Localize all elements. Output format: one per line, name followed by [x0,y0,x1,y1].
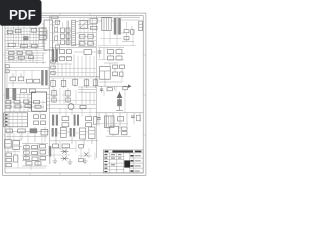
capacitor C31 [70,128,76,137]
capacitor C23 [93,117,97,125]
wire texture mid-right [98,48,125,82]
ground G2 [68,159,73,165]
diode D7 [41,129,48,135]
resistor R15 [26,51,32,54]
wire vertical divider left [49,16,51,164]
wire texture bottom-left [6,131,47,170]
resistor R52 [62,123,69,127]
capacitor C14 [73,78,78,87]
wire texture lower-right [98,86,128,124]
resistor R18 [10,77,16,81]
border zone ticks [3,13,146,175]
wire mid-left stubs [8,73,41,87]
resistor R47 [41,115,46,119]
resistor R13 [9,51,14,54]
resistor R57 [6,129,13,133]
resistor R71 [122,132,127,135]
resistor R24 [60,57,65,61]
inductor L1 [6,88,9,99]
PDF badge overlay [0,0,42,26]
resistor R70 [122,127,127,130]
capacitor C13 [61,78,66,88]
sheet inner border [5,16,143,173]
wire verticals under badge [8,27,43,51]
connector CN3 [4,113,28,127]
capacitor C25 [115,86,128,90]
wire horizontals top-left [6,28,48,51]
resistor R63 [62,144,70,148]
sheet outer border [3,13,146,175]
transistor Q1 [61,149,69,153]
wire horizontal right y113 [96,112,143,114]
capacitor C22 [74,115,79,126]
wire mid-top horizontals [52,22,96,47]
resistor R7 [91,26,97,29]
capacitor C27 [131,115,140,121]
resistor R17 [18,56,24,59]
resistor R20 [26,79,32,83]
diode D5 [128,84,131,88]
wire texture mid-left [6,50,44,79]
capacitor C20 [66,88,70,103]
wire texture lower-center [50,88,96,117]
optocoupler U3 [80,21,88,29]
capacitor C1 [23,36,28,40]
capacitor C16 [93,78,98,88]
resistor R66 [79,145,84,148]
resistor R36 [21,89,27,93]
capacitor C18 [120,72,123,76]
regulator U4 [100,67,111,80]
resistor R44 [25,105,31,108]
resistor R14 [17,51,22,54]
inductor L2 [12,88,16,100]
capacitor C9 [5,65,9,68]
wire texture bottom-mid [50,132,95,160]
wire vertical divider mid [96,16,98,158]
resistor R21 [34,79,40,83]
resistor R55 [107,88,112,91]
resistor R1 [7,30,12,33]
wire stub [49,157,51,165]
wire bottom-left rows [6,127,50,142]
wire texture mid-center [50,56,96,76]
switch SW1 block [22,143,48,166]
capacitor C21 [52,115,58,126]
title block right entries [135,155,141,171]
resistor R43 [15,105,21,108]
wire bottom-mid bus [50,137,98,146]
resistor R61 [6,164,12,167]
resistor R46 [34,115,39,119]
fuse F1 [51,16,58,19]
resistor R38 [6,100,11,103]
relay K1 [5,140,12,148]
resistor R72 [60,28,64,32]
resistor R53 [86,117,92,121]
resistor R54 [86,123,92,127]
varistor RV1 arrow [116,92,123,111]
transformer T2 [114,18,121,36]
resistor R49 [41,121,46,125]
resistor R51 [62,117,69,121]
capacitor C11 [52,49,58,62]
capacitor C29 [52,128,58,137]
connector CN5 [104,116,114,127]
resistor R59 [6,153,12,156]
resistor R41 [34,100,40,103]
diode D1 [31,44,37,47]
wire mid-left rows [6,53,47,64]
capacitor C24 [100,86,103,93]
capacitor C8 [28,56,33,59]
resistor R29 [108,50,114,54]
resistor R58 [18,129,26,133]
resistor R35 [113,72,118,75]
transformer T1 core [67,21,69,46]
wire mid rows [50,47,96,76]
capacitor C33 [89,127,95,139]
wire texture top-right [98,22,136,46]
bridge rectifier BD1 [39,28,46,40]
resistor R62 [53,144,59,148]
diode D2 [90,19,97,24]
relay K2 [13,141,20,150]
capacitor C30 [60,127,66,137]
resistor R32 [116,56,122,60]
resistor R40 [24,100,29,103]
resistor R6 [55,45,59,49]
resistor R12 [124,37,129,40]
wire horizontal x48-99 y77 [49,75,99,77]
wire texture top-left [6,28,46,49]
svg-text:PDF: PDF [9,8,36,23]
transformer T1 secondary winding [72,20,76,46]
wire texture top-mid [50,18,96,46]
switching IC U2 [42,20,56,50]
wire left rows y100-112 [6,93,47,112]
capacitor C19 [52,88,56,103]
resistor R60 [6,158,12,161]
diode D4 [84,50,92,55]
wire right-top [98,20,139,42]
capacitor C37 [66,40,70,44]
capacitor C6 [55,36,58,40]
resistor R31 [108,56,114,60]
resistor R74 [60,40,64,44]
resistor R10 [79,42,85,46]
inductor L3 [41,70,43,85]
diode D6 [30,128,38,133]
connector CN2 [139,21,143,31]
transistor Q2 [61,156,69,160]
resistor R4 [21,44,28,47]
resistor R22 [60,50,65,54]
title block left labels [104,154,107,172]
capacitor C15 [84,78,89,88]
ground G3 [83,158,88,164]
title block [103,150,143,173]
wire t1 links [58,22,79,45]
diode D3 [124,30,129,33]
inductor L4 [45,70,47,85]
resistor R2 [15,29,21,32]
resistor R73 [60,34,64,38]
title block header text [105,151,142,153]
capacitor C10 [5,70,9,73]
resistor R9 [88,35,94,39]
resistor R28 [51,71,55,74]
resistor R11 [88,42,94,46]
resistor R33 [113,65,118,68]
resistor R30 [116,50,122,54]
title block stamp [124,160,130,167]
IC U1 [29,92,50,111]
capacitor C7 [131,30,134,35]
IC U5 [106,126,131,136]
resistor R42 [6,105,11,108]
wire right-mid [98,48,125,66]
resistor R37 [29,89,35,93]
line filter LF1 [102,18,111,31]
capacitor C36 [66,34,70,38]
ground G1 [53,158,58,164]
resistor R3 [8,43,15,46]
resistor R5 [55,20,59,24]
resistor R16 [9,56,14,59]
wire top bus [6,16,140,18]
lamp M1 [68,104,74,110]
isolation boundary box [7,67,49,88]
resistor R19 [18,77,24,81]
capacitor C17 [98,48,102,58]
wire bundle right-of-center [78,87,96,104]
resistor R45 [35,105,41,108]
resistor R23 [66,50,71,54]
transistor Q3 [84,152,88,156]
resistor R8 [79,35,85,39]
resistor R26 [51,60,55,63]
capacitor C12 [51,78,56,88]
resistor R39 [14,100,20,103]
capacitor C38 [49,146,51,157]
resistor R25 [66,57,71,61]
title block mid entries [111,154,121,165]
capacitor C26 [97,118,101,120]
wire right column drops [99,113,140,128]
resistor R27 [51,66,55,69]
resistor R34 [120,65,125,68]
resistor R48 [34,121,39,125]
capacitor C35 [66,28,70,32]
resistor R56 [118,117,124,121]
resistor R68 [79,158,84,161]
capacitor C5 [55,28,58,32]
wire long horizontals y105-108 [50,105,96,108]
wire horizontal right y86 [98,85,131,87]
capacitor C2 [31,29,36,33]
resistor R50 [80,105,86,108]
capacitor C32 [80,128,86,139]
capacitor C28 [14,155,18,162]
wire right-mid drops [99,68,122,86]
title block right labels [130,155,133,172]
wire texture lower-left [6,93,44,127]
